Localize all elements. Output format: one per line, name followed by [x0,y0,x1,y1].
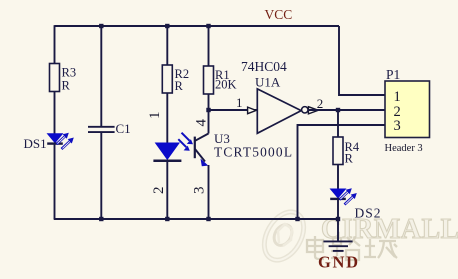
wire R4 branch from output [337,110,339,137]
connector P1 [385,67,430,154]
svg-text:VCC: VCC [265,7,293,22]
svg-text:TCRT5000L: TCRT5000L [214,145,292,160]
wire R1 top [208,26,210,66]
wire DS2 to bottom rail [337,199,339,219]
wire left column top [54,25,56,63]
watermark logo ellipse [256,205,311,267]
junction R2 top [165,24,169,28]
junction R4 top [336,108,340,112]
junction R1 top [206,24,210,28]
wire R3 to DS1 [54,92,56,135]
svg-text:1: 1 [394,89,401,105]
svg-text:DS1: DS1 [24,136,47,151]
wire R2 to U3 LED anode [166,93,168,143]
wire top VCC rail [55,25,340,27]
resistor R4 [333,137,360,166]
svg-text:P1: P1 [386,67,400,82]
svg-text:2: 2 [317,96,324,111]
wire gate input [209,109,258,111]
junction ground stem [336,217,340,221]
wire emitter to bottom rail [208,165,210,219]
svg-text:74HC04: 74HC04 [241,59,287,74]
wire VCC drop to P1 pin1 [339,26,385,95]
svg-text:R: R [345,152,354,166]
resistor R3 [50,64,77,93]
junction U3 pin3 bottom [206,217,210,221]
wire R4 to DS2 [337,165,339,190]
svg-text:3: 3 [394,118,401,134]
svg-text:20K: 20K [215,78,237,92]
svg-text:U1A: U1A [255,75,281,90]
ground [318,241,358,271]
junction pin3 wire bottom [295,217,299,221]
wire bottom rail to ground [337,219,339,241]
wire DS1 to bottom rail [54,144,56,219]
wire C1 top [100,26,102,126]
wire P1 pin3 to bottom rail [298,125,386,219]
svg-text:R3: R3 [62,66,77,80]
LED DS2 [330,188,380,220]
wire gate output to P1 pin2 [308,109,385,111]
svg-text:R: R [62,79,71,93]
svg-text:DS2: DS2 [355,206,381,221]
junction C1 top [99,24,103,28]
svg-text:4: 4 [194,119,210,127]
resistor R1 [204,66,237,94]
LED DS1 [24,133,74,151]
output pin arrow [308,107,318,114]
junction C1 bottom [99,217,103,221]
svg-text:GND: GND [318,253,358,272]
junction U3 pin2 bottom [165,217,169,221]
input pin arrow [248,107,257,114]
U3 infrared LED [153,143,181,161]
svg-text:2: 2 [151,187,167,195]
op-amp U1A inverter [241,59,308,134]
junction gate input [206,108,210,112]
capacitor C1 [88,121,131,136]
svg-text:1: 1 [236,95,243,110]
svg-text:3: 3 [192,187,208,195]
light arrows LED to transistor [178,133,193,151]
wire R2 top [166,26,168,65]
svg-text:1: 1 [147,112,163,120]
wire C1 bottom [100,133,102,219]
svg-text:R: R [175,79,184,93]
wire R1 bottom to collector [208,94,210,134]
svg-text:Header 3: Header 3 [385,143,423,154]
transistor U3 phototransistor [195,131,292,166]
svg-text:C1: C1 [116,121,131,136]
watermark chinese glyph strokes [307,236,397,260]
resistor R2 [162,65,189,93]
wire bottom ground rail [54,218,338,220]
wire U3 LED cathode to bottom rail [166,161,168,219]
